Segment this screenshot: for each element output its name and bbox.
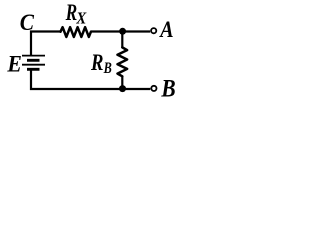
- wire: from RB down to bottom junction: [121, 76, 123, 89]
- battery E: short thick plate 2: [27, 68, 40, 71]
- resistor RX (zigzag): [61, 27, 91, 37]
- terminal B circle: [151, 86, 156, 91]
- wire: bottom horizontal from corner to terminal B: [31, 70, 150, 90]
- svg-text:R: R: [90, 50, 103, 75]
- junction dot (top node): [119, 28, 126, 35]
- svg-text:B: B: [103, 60, 112, 77]
- wire: from R_X to terminal A: [91, 30, 150, 32]
- svg-text:R: R: [65, 0, 77, 25]
- wire: top-left horizontal segment from corner to R_X: [31, 32, 61, 56]
- wire: vertical from top junction down to RB: [121, 32, 123, 48]
- junction dot (bottom node): [119, 85, 126, 92]
- battery E: long thin plate 1: [22, 55, 45, 57]
- svg-text:B: B: [161, 75, 176, 102]
- terminal A circle: [151, 28, 156, 33]
- battery E: short thick plate 1: [27, 59, 40, 62]
- svg-text:A: A: [158, 17, 173, 42]
- svg-text:X: X: [76, 9, 88, 28]
- svg-text:C: C: [20, 10, 34, 36]
- battery E: long thin plate 2: [22, 64, 45, 66]
- svg-text:E: E: [6, 51, 21, 76]
- resistor RB (vertical zigzag): [118, 47, 128, 76]
